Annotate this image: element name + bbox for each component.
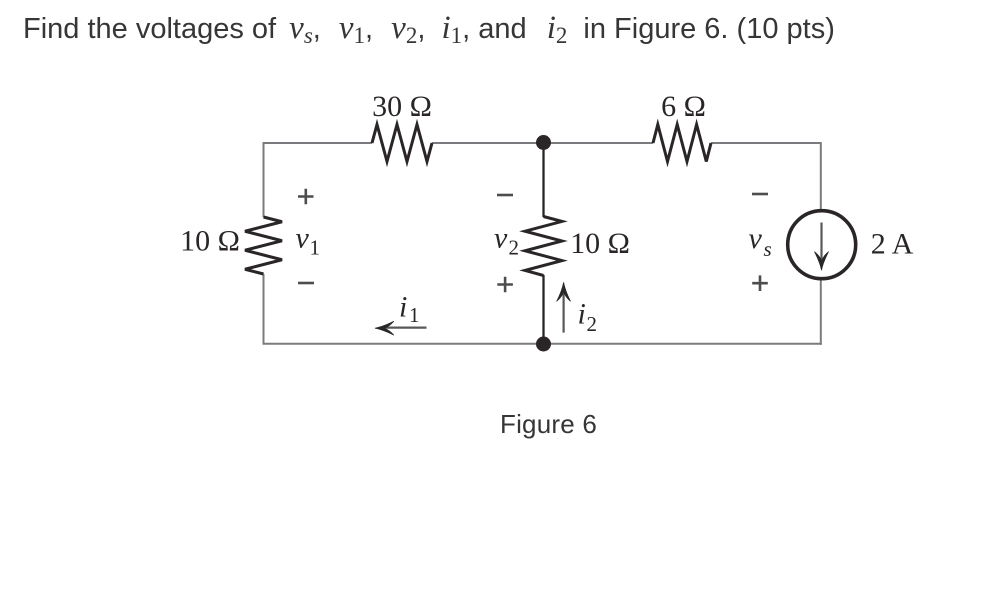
- plus sign v2: [497, 277, 513, 293]
- svg-text:s: s: [764, 237, 772, 261]
- problem statement title: [23, 8, 835, 49]
- svg-text:v: v: [494, 222, 508, 255]
- label 10 ohm left: [180, 225, 240, 258]
- svg-text:i: i: [399, 291, 407, 324]
- figure caption: [500, 409, 597, 440]
- wire left branch: [263, 142, 265, 344]
- svg-text:2: 2: [509, 236, 520, 260]
- svg-text:1: 1: [409, 303, 420, 327]
- plus sign vs: [752, 275, 768, 291]
- arrow i2: [557, 282, 571, 332]
- wire top-right segment: [711, 143, 821, 210]
- label i2: [578, 298, 598, 337]
- svg-text:v: v: [749, 222, 763, 255]
- wire middle branch: [542, 142, 544, 344]
- label 10 ohm middle: [570, 227, 630, 260]
- label 30 ohm: [372, 90, 432, 123]
- label v2: [494, 222, 519, 260]
- svg-text:10 Ω: 10 Ω: [180, 225, 240, 258]
- wire top-left segment: [264, 142, 373, 144]
- minus sign v2: [497, 194, 513, 197]
- plus sign v1: [298, 189, 314, 205]
- resistor 6 ohm: [653, 125, 711, 162]
- current source arrow: [814, 223, 828, 271]
- svg-text:2: 2: [587, 312, 598, 336]
- label 6 ohm: [661, 90, 706, 123]
- label i1: [399, 291, 420, 328]
- resistor 30 ohm: [372, 125, 432, 162]
- svg-text:i: i: [578, 298, 586, 331]
- wire right branch below source: [820, 279, 822, 345]
- svg-text:1: 1: [310, 236, 321, 260]
- wire bottom segment: [263, 343, 822, 345]
- svg-text:2 A: 2 A: [871, 228, 914, 261]
- label v1: [296, 222, 321, 260]
- minus sign v1: [298, 282, 314, 285]
- svg-text:v: v: [296, 222, 310, 255]
- label vs: [749, 222, 772, 261]
- resistor 10 ohm left: [245, 217, 282, 274]
- current source 2A: [788, 211, 856, 279]
- svg-text:10 Ω: 10 Ω: [570, 227, 630, 260]
- svg-text:30 Ω: 30 Ω: [372, 90, 432, 123]
- resistor 10 ohm middle: [525, 217, 562, 276]
- wire top-middle segment: [432, 142, 653, 144]
- minus sign vs: [752, 193, 768, 196]
- label 2 A: [871, 228, 914, 261]
- node dot top: [536, 135, 551, 150]
- svg-text:6 Ω: 6 Ω: [661, 90, 706, 123]
- arrow i1: [375, 321, 427, 335]
- node dot bottom: [536, 337, 551, 352]
